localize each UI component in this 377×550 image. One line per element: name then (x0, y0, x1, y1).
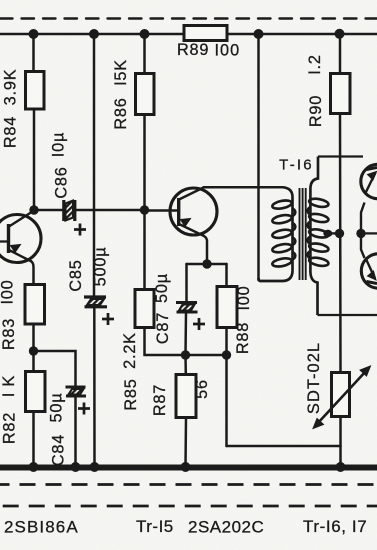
wire C87 top (185, 264, 188, 302)
svg-text:Tr-I5: Tr-I5 (136, 517, 174, 536)
wire R87 top (184, 355, 187, 375)
ground bus (thick) (0, 465, 377, 471)
resistor R83 (25, 285, 45, 325)
svg-text:50µ: 50µ (153, 273, 171, 303)
wire R84 column top (32, 34, 35, 72)
wire R82 bottom (32, 411, 35, 467)
transformer T-16 primary winding (259, 187, 296, 281)
wire emitter node stub to edge (361, 232, 377, 234)
wire C86 right segment to base node (76, 209, 145, 212)
thermistor SDT-02L body (332, 373, 350, 417)
svg-text:I00: I00 (235, 285, 253, 310)
svg-text:C87: C87 (154, 312, 172, 344)
svg-text:C86: C86 (53, 166, 71, 198)
resistor R90 (331, 74, 351, 114)
transformer secondary center tap (324, 230, 340, 236)
wire R88 bottom down (225, 327, 228, 446)
wire R90 bottom through tap node to SDT (339, 113, 342, 373)
wire R90 top (339, 34, 342, 74)
svg-text:R83: R83 (0, 318, 18, 350)
wire emitter split horizontal (187, 263, 227, 266)
svg-text:R84: R84 (2, 116, 20, 148)
svg-text:C84: C84 (50, 434, 68, 466)
wire R88 to SDT column (227, 445, 341, 448)
plus mark C86 (74, 224, 86, 236)
svg-text:2SA202C: 2SA202C (188, 518, 264, 537)
svg-text:56: 56 (193, 379, 211, 399)
svg-text:R87: R87 (151, 384, 169, 416)
wire Q1 emitter down to R83 (32, 262, 34, 286)
svg-text:500µ: 500µ (92, 247, 110, 287)
wire secondary bottom to Tr-17 base (318, 314, 377, 316)
wire R84 bottom to collector node (33, 108, 36, 210)
svg-text:2.2K: 2.2K (121, 332, 139, 369)
svg-text:Tr-I6, I7: Tr-I6, I7 (303, 517, 367, 536)
svg-text:I0µ: I0µ (50, 132, 68, 157)
transistor Q2 (2SA202C) (170, 188, 217, 237)
dashed separator line 2 (0, 505, 377, 508)
transistor Tr-16 (edge) (361, 164, 377, 198)
wire C84 bottom (74, 397, 77, 468)
svg-text:I K: I K (0, 375, 18, 397)
svg-text:R89: R89 (177, 41, 209, 59)
wire Q2 collector to transformer primary (204, 186, 284, 189)
svg-text:I.2: I.2 (306, 54, 324, 75)
resistor R86 (136, 74, 155, 115)
transformer T-16 secondary winding (308, 157, 330, 316)
transformer T-16 core (300, 188, 306, 280)
label R84 3.9K (0, 41, 325, 466)
wire R86 bottom to R85 top (143, 114, 146, 290)
wire C87 bottom to node (184, 313, 187, 356)
svg-text:I5K: I5K (112, 59, 130, 86)
svg-text:R85: R85 (122, 378, 140, 410)
svg-text:2SBI86A: 2SBI86A (4, 518, 79, 537)
resistor R85 (135, 290, 154, 328)
wire Q2 base (145, 209, 179, 212)
dashed chassis line top (0, 17, 377, 19)
wire R86 column top (143, 34, 146, 74)
wire Q2 emitter down (204, 236, 207, 264)
dashed separator line 1 (0, 483, 377, 486)
resistor R89 (184, 26, 227, 41)
wire R83 R82 link (32, 324, 35, 372)
wire SDT bottom (339, 416, 342, 467)
capacitor C86 (horizontal) (64, 200, 75, 221)
resistor R84 (26, 72, 45, 110)
capacitor C85 (84, 297, 107, 307)
wire B+ to primary bottom column (257, 34, 260, 280)
capacitor C87 (176, 303, 198, 313)
svg-text:3.9K: 3.9K (2, 69, 20, 106)
wire C85 bottom (93, 307, 96, 467)
wire B+ rail right segment (227, 33, 377, 35)
wire R88 top (225, 264, 228, 287)
plus mark C87 (193, 318, 205, 330)
svg-text:T-I6: T-I6 (279, 157, 314, 174)
wire C86 left segment (34, 209, 63, 212)
plus mark C85 (102, 313, 114, 325)
resistor R82 (26, 372, 46, 412)
thermistor SDT-02L arrow (313, 366, 371, 429)
capacitor C84 (66, 387, 87, 396)
wire R87 bottom (184, 417, 187, 467)
svg-text:I00: I00 (215, 42, 241, 60)
transistor Q1 (2SB186A) (0, 212, 41, 263)
wire R85 bottom corner to node row (145, 327, 227, 355)
wire emitters of Tr-16/17 (361, 203, 365, 259)
wire C85 column (93, 34, 96, 297)
wire R83 node to C84 (34, 351, 76, 387)
svg-text:SDT-02L: SDT-02L (305, 342, 323, 414)
wire B+ rail left segment (0, 33, 184, 35)
svg-text:C85: C85 (67, 259, 85, 291)
svg-text:I00: I00 (0, 279, 17, 304)
svg-text:R88: R88 (234, 322, 252, 354)
svg-text:R86: R86 (112, 97, 130, 129)
svg-text:50µ: 50µ (48, 393, 66, 423)
resistor R88 (217, 287, 237, 328)
resistor R87 (176, 375, 196, 418)
transistor Tr-17 (edge) (361, 254, 377, 288)
svg-text:R82: R82 (1, 412, 19, 444)
svg-text:R90: R90 (307, 95, 325, 127)
plus mark C84 (78, 403, 90, 415)
wire secondary top to Tr-16 base (318, 155, 363, 157)
